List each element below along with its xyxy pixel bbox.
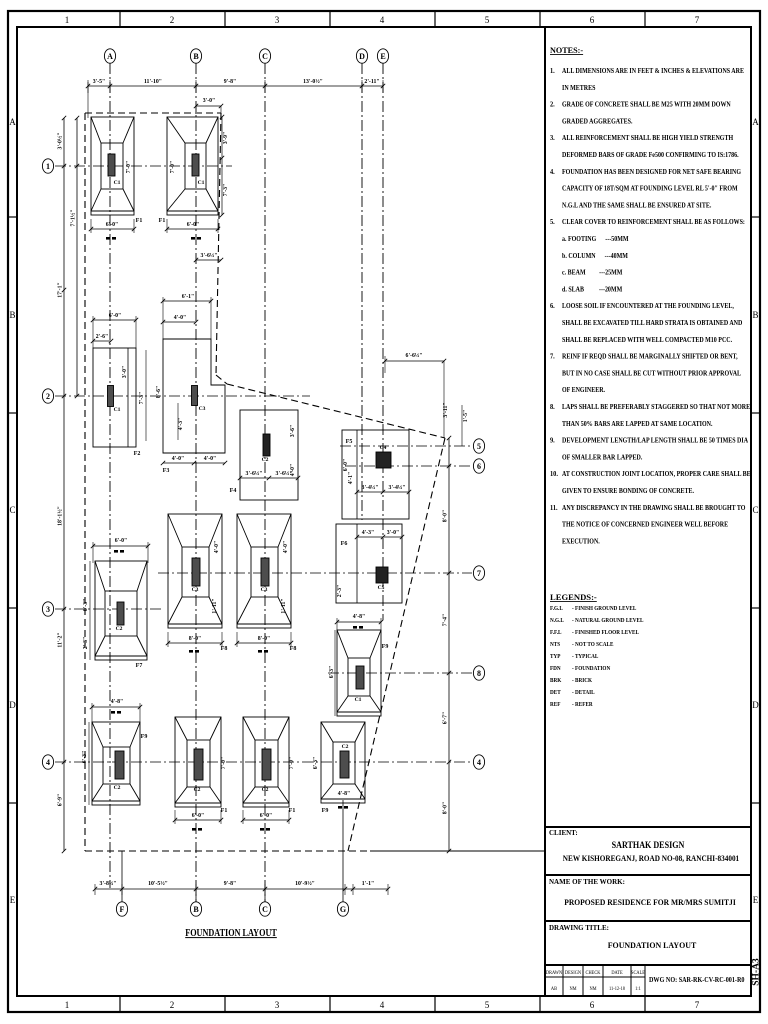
svg-text:13'-0½": 13'-0½"	[303, 78, 323, 85]
left dimension chain outer	[62, 116, 66, 853]
svg-text:OF ENGINEER.: OF ENGINEER.	[562, 387, 605, 395]
svg-text:BRK: BRK	[550, 678, 562, 684]
svg-text:ALL DIMENSIONS ARE IN FEET & I: ALL DIMENSIONS ARE IN FEET & INCHES & EL…	[562, 67, 744, 75]
svg-text:8'-0": 8'-0"	[443, 802, 449, 815]
svg-text:3'-0": 3'-0"	[387, 530, 400, 536]
svg-text:DET: DET	[550, 690, 561, 696]
svg-text:F: F	[120, 905, 125, 914]
svg-text:7: 7	[695, 1000, 700, 1010]
svg-text:SHALL BE REPLACED WITH WELL CO: SHALL BE REPLACED WITH WELL COMPACTED M1…	[562, 336, 732, 344]
svg-text:1: 1	[65, 15, 70, 25]
svg-text:b. COLUMN ---40MM: b. COLUMN ---40MM	[562, 252, 628, 260]
svg-text:6: 6	[590, 15, 595, 25]
footing F1 at C/4	[243, 717, 295, 814]
svg-text:4: 4	[380, 1000, 385, 1010]
grid line A	[109, 63, 111, 888]
dimension 3ft11 vertical	[443, 402, 469, 446]
svg-text:3'-5": 3'-5"	[93, 79, 106, 85]
svg-text:F.G.L: F.G.L	[550, 606, 563, 612]
svg-text:2'-6": 2'-6"	[96, 334, 109, 340]
svg-text:C2: C2	[114, 785, 121, 791]
grid bubble C	[259, 49, 270, 63]
footing F1-B1 dims	[165, 161, 220, 240]
svg-text:D: D	[359, 52, 365, 61]
svg-text:LAPS SHALL BE PREFERABLY STAGG: LAPS SHALL BE PREFERABLY STAGGERED SO TH…	[562, 403, 751, 411]
building outline right edge upper	[216, 113, 221, 375]
svg-text:E: E	[380, 52, 385, 61]
svg-text:2'-11": 2'-11"	[364, 79, 379, 85]
drawing title divider	[545, 920, 751, 922]
dimension 3ft9 right of footing B1	[220, 115, 229, 217]
bottom margin strip ticks	[120, 996, 645, 1012]
svg-text:F2: F2	[134, 451, 141, 457]
dimension 6ft6 top right	[383, 352, 446, 438]
grid bubble 2	[42, 389, 53, 403]
svg-text:6'-3": 6'-3"	[313, 757, 319, 770]
svg-text:7'-0": 7'-0"	[289, 757, 295, 770]
svg-text:DRAWING TITLE:: DRAWING TITLE:	[549, 924, 609, 932]
grid line B	[195, 63, 197, 902]
svg-text:3'-0": 3'-0"	[122, 366, 128, 379]
svg-text:A: A	[9, 117, 16, 127]
svg-text:1'-1": 1'-1"	[362, 881, 375, 887]
svg-text:3: 3	[46, 605, 50, 614]
svg-text:4'-8": 4'-8"	[338, 791, 351, 797]
svg-text:F9: F9	[141, 734, 148, 740]
svg-text:6'-0": 6'-0"	[192, 813, 205, 819]
svg-text:9'-8": 9'-8"	[224, 881, 237, 887]
svg-text:ALL REINFORCEMENT SHALL BE HIG: ALL REINFORCEMENT SHALL BE HIGH YIELD ST…	[562, 135, 734, 143]
bottom grid stem F	[121, 851, 123, 902]
svg-text:4'-0": 4'-0"	[174, 315, 187, 321]
svg-text:4'-0": 4'-0"	[283, 541, 289, 554]
grid bubble G	[337, 902, 348, 916]
svg-text:F1: F1	[159, 218, 166, 224]
svg-text:2: 2	[170, 1000, 175, 1010]
grid bubble B bottom	[190, 902, 201, 916]
footing F1 at B/1	[159, 117, 218, 224]
grid line 2	[55, 395, 310, 397]
left chain labels	[57, 133, 64, 807]
svg-text:3'-11": 3'-11"	[443, 402, 449, 417]
svg-text:3'-6½": 3'-6½"	[201, 252, 218, 259]
svg-text:CLEAR COVER TO REINFORCEMENT S: CLEAR COVER TO REINFORCEMENT SHALL BE AS…	[562, 219, 745, 227]
svg-text:F4: F4	[230, 488, 237, 494]
svg-text:5: 5	[485, 1000, 490, 1010]
svg-text:1:1: 1:1	[635, 987, 641, 992]
grid bubble B	[190, 49, 201, 63]
building outline left edge	[84, 113, 86, 851]
svg-text:IN METRES: IN METRES	[562, 84, 596, 92]
footing F9 at G/4	[321, 722, 365, 814]
svg-text:NEW KISHOREGANJ, ROAD NO-08, R: NEW KISHOREGANJ, ROAD NO-08, RANCHI-8340…	[563, 853, 739, 863]
svg-text:NTS: NTS	[550, 642, 560, 648]
footing F9 at E/8	[337, 630, 388, 716]
svg-text:4'-0": 4'-0"	[214, 541, 220, 554]
footing F5 dims	[343, 459, 411, 494]
bottom grid stem G	[342, 800, 344, 902]
footing F1 at B/4	[175, 717, 227, 814]
svg-text:NOTES:-: NOTES:-	[550, 46, 583, 55]
svg-text:DATE: DATE	[611, 971, 622, 976]
right margin letters A-E	[752, 117, 759, 905]
footing F2	[93, 348, 140, 457]
svg-text:GRADE OF CONCRETE SHALL BE M2: GRADE OF CONCRETE SHALL BE M25 WITH 20MM…	[562, 101, 731, 109]
svg-text:C4: C4	[380, 445, 387, 451]
name of work divider	[545, 874, 751, 876]
svg-text:B: B	[193, 905, 199, 914]
grid line C	[264, 63, 266, 902]
footing F8 at B/7	[168, 514, 227, 652]
svg-text:6'-3": 6'-3"	[83, 599, 89, 612]
svg-text:2.: 2.	[550, 100, 555, 109]
svg-text:4'-0": 4'-0"	[172, 456, 185, 462]
svg-text:- REFER: - REFER	[572, 702, 594, 708]
title block client row divider	[545, 826, 751, 828]
building outline top edge	[85, 112, 221, 114]
svg-text:3'-6": 3'-6"	[290, 425, 296, 438]
svg-text:PROPOSED RESIDENCE FOR MR/MRS: PROPOSED RESIDENCE FOR MR/MRS SUMITJI	[564, 897, 736, 907]
svg-text:7: 7	[695, 15, 700, 25]
svg-text:A: A	[107, 52, 113, 61]
grid bubble F	[116, 902, 127, 916]
footing F3 dims	[161, 294, 227, 465]
svg-text:F3: F3	[163, 468, 170, 474]
svg-text:C3: C3	[199, 406, 206, 412]
svg-text:6'-1": 6'-1"	[182, 294, 195, 300]
grid bubble A	[104, 49, 115, 63]
grid line 4	[55, 761, 472, 763]
svg-text:C1: C1	[198, 180, 205, 186]
top margin strip ticks	[120, 11, 645, 27]
grid bubble C bottom	[259, 902, 270, 916]
footing F7 dims	[83, 538, 150, 660]
svg-text:3'-0½": 3'-0½"	[57, 133, 64, 150]
svg-text:c. BEAM ---25MM: c. BEAM ---25MM	[562, 269, 623, 277]
svg-text:F6: F6	[341, 541, 348, 547]
bottom dimension labels	[100, 880, 375, 887]
left margin letters A-E	[9, 117, 16, 905]
footing F3 (L-shaped)	[163, 339, 225, 474]
svg-text:6'-0": 6'-0"	[260, 813, 273, 819]
svg-text:11-12-18: 11-12-18	[609, 987, 625, 992]
svg-text:4: 4	[477, 758, 481, 767]
svg-text:6: 6	[590, 1000, 595, 1010]
svg-text:C2: C2	[194, 787, 201, 793]
grid line 1	[55, 165, 232, 167]
svg-text:F.F.L: F.F.L	[550, 630, 562, 636]
svg-text:FOUNDATION LAYOUT: FOUNDATION LAYOUT	[608, 941, 697, 950]
title block table grid	[545, 965, 645, 996]
svg-text:REF: REF	[550, 702, 561, 708]
svg-text:9'-8": 9'-8"	[224, 79, 237, 85]
svg-text:ANY DISCREPANCY IN THE DRAWING: ANY DISCREPANCY IN THE DRAWING SHALL BE …	[562, 504, 745, 512]
dimension 3ft0 above footing B1	[194, 98, 223, 117]
svg-text:6.: 6.	[550, 302, 555, 311]
svg-text:7'-0": 7'-0"	[126, 161, 132, 174]
svg-text:LEGENDS:-: LEGENDS:-	[550, 592, 597, 602]
svg-text:6'-7": 6'-7"	[443, 712, 449, 725]
svg-text:C: C	[262, 52, 268, 61]
svg-text:7: 7	[477, 569, 481, 578]
footing F6 dims	[337, 530, 404, 597]
grid bubble 4 left	[42, 755, 53, 769]
footing F8-B dims	[166, 541, 224, 653]
svg-text:E: E	[753, 895, 759, 905]
svg-text:D: D	[752, 700, 759, 710]
bottom dimension line	[93, 884, 390, 895]
footing F1-A1 dims	[89, 161, 136, 240]
svg-text:10'-9½": 10'-9½"	[295, 880, 315, 887]
footing F8-C dims	[235, 541, 293, 653]
svg-text:7.: 7.	[550, 352, 555, 361]
svg-text:7'-0": 7'-0"	[170, 161, 176, 174]
svg-text:BUT IN NO CASE SHALL BE CUT WI: BUT IN NO CASE SHALL BE CUT WITHOUT PRIO…	[562, 370, 741, 378]
footing F5 at D/5	[342, 430, 409, 519]
svg-text:6: 6	[477, 462, 481, 471]
svg-text:SARTHAK DESIGN: SARTHAK DESIGN	[612, 840, 686, 851]
svg-text:4'-3": 4'-3"	[362, 530, 375, 536]
grid line D	[361, 63, 363, 520]
svg-text:CLIENT:: CLIENT:	[549, 829, 578, 837]
title block table top	[545, 964, 751, 966]
svg-text:AB: AB	[551, 987, 558, 992]
svg-text:NM: NM	[589, 987, 597, 992]
svg-text:3'-4½": 3'-4½"	[389, 484, 406, 491]
svg-text:8'-0": 8'-0"	[443, 510, 449, 523]
grid bubble 7	[473, 566, 484, 580]
svg-text:EXECUTION.: EXECUTION.	[562, 538, 600, 546]
svg-text:- NOT TO SCALE: - NOT TO SCALE	[572, 642, 614, 648]
svg-text:OF SMALLER BAR LAPPED.: OF SMALLER BAR LAPPED.	[562, 454, 643, 462]
svg-text:N.G.L AND THE SAME SHALL BE EN: N.G.L AND THE SAME SHALL BE ENSURED AT S…	[562, 202, 712, 210]
footing F1-B4 dims	[173, 757, 227, 831]
footing F9-E8 dims	[329, 614, 383, 716]
grid bubble E	[377, 49, 388, 63]
building outline sloped edge to grid 5	[227, 384, 445, 438]
grid line 7	[158, 572, 472, 574]
notes panel divider	[544, 27, 546, 996]
svg-text:3'-9": 3'-9"	[223, 132, 229, 145]
svg-text:F1: F1	[289, 808, 296, 814]
grid line 6	[345, 465, 472, 467]
svg-text:1: 1	[65, 1000, 70, 1010]
svg-text:7'-1½": 7'-1½"	[70, 210, 77, 227]
svg-text:- FINISH GROUND LEVEL: - FINISH GROUND LEVEL	[572, 606, 637, 612]
footing F9 at F/4	[92, 722, 147, 805]
notes text block	[550, 67, 751, 546]
svg-text:- DETAIL: - DETAIL	[572, 690, 595, 696]
grid bubble 1	[42, 159, 53, 173]
svg-text:17'-1": 17'-1"	[58, 282, 64, 297]
svg-text:4'-0": 4'-0"	[290, 464, 296, 477]
svg-text:C2: C2	[262, 787, 269, 793]
svg-text:LOOSE SOIL IF ENCOUNTERED AT T: LOOSE SOIL IF ENCOUNTERED AT THE FOUNDIN…	[562, 303, 734, 311]
svg-text:10.: 10.	[550, 470, 558, 479]
svg-text:F9: F9	[382, 644, 389, 650]
svg-text:a. FOOTING ---50MM: a. FOOTING ---50MM	[562, 235, 629, 243]
svg-text:FDN: FDN	[550, 666, 561, 672]
svg-text:5.: 5.	[550, 218, 555, 227]
bottom grid stem B	[195, 889, 197, 902]
dimension 3ft6 below footing B1	[194, 252, 223, 262]
svg-text:C: C	[262, 905, 268, 914]
footing F9-F4 dims	[82, 699, 142, 805]
svg-text:F5: F5	[346, 439, 353, 445]
svg-text:FOUNDATION LAYOUT: FOUNDATION LAYOUT	[185, 927, 277, 938]
bottom margin numbers 1-7	[65, 1000, 700, 1010]
svg-text:C2: C2	[262, 457, 269, 463]
left margin strip ticks	[8, 217, 17, 803]
svg-text:C1: C1	[114, 180, 121, 186]
svg-text:SCALE: SCALE	[631, 971, 645, 976]
svg-text:4'-3": 4'-3"	[178, 418, 184, 431]
svg-text:11.: 11.	[550, 503, 558, 512]
grid bubble 8	[473, 666, 484, 680]
footing F1 at A/1	[91, 117, 142, 224]
svg-text:CAPACITY OF 18T/SQM AT FOUNDIN: CAPACITY OF 18T/SQM AT FOUNDING LEVEL RL…	[562, 185, 738, 193]
svg-text:D: D	[9, 700, 16, 710]
svg-text:1: 1	[46, 162, 50, 171]
svg-text:B: B	[193, 52, 199, 61]
svg-text:1'-5": 1'-5"	[463, 410, 469, 423]
grid line 5	[340, 445, 472, 447]
svg-text:- FOUNDATION: - FOUNDATION	[572, 666, 610, 672]
svg-text:4'-1": 4'-1"	[348, 472, 354, 485]
svg-text:7'-4": 7'-4"	[443, 614, 449, 627]
svg-text:C2: C2	[116, 626, 123, 632]
footing F2 dims	[91, 313, 162, 441]
svg-text:5: 5	[477, 442, 481, 451]
svg-text:6'-0": 6'-0"	[187, 222, 200, 228]
svg-text:6'-3": 6'-3"	[329, 666, 335, 679]
svg-text:- TYPICAL: - TYPICAL	[572, 654, 599, 660]
svg-text:1.: 1.	[550, 67, 555, 76]
svg-text:3'-6½": 3'-6½"	[246, 470, 263, 477]
svg-text:DWG NO: SAR-RK-CV-RC-001-R0: DWG NO: SAR-RK-CV-RC-001-R0	[649, 977, 745, 984]
svg-text:C3: C3	[192, 587, 199, 593]
svg-text:F9: F9	[322, 808, 329, 814]
svg-text:C5: C5	[378, 585, 385, 591]
svg-text:4'-8": 4'-8"	[111, 699, 124, 705]
svg-text:TYP: TYP	[550, 654, 561, 660]
svg-text:- FINISHED FLOOR LEVEL: - FINISHED FLOOR LEVEL	[572, 630, 639, 636]
svg-text:6'-0": 6'-0"	[106, 222, 119, 228]
svg-text:6'-3": 6'-3"	[82, 751, 88, 764]
svg-text:F1: F1	[221, 808, 228, 814]
svg-text:6'-6½": 6'-6½"	[406, 352, 423, 359]
svg-text:2: 2	[170, 15, 175, 25]
svg-text:8'-0": 8'-0"	[189, 636, 202, 642]
svg-text:- NATURAL GROUND LEVEL: - NATURAL GROUND LEVEL	[572, 618, 644, 624]
footing F7 at A/3	[95, 561, 147, 669]
svg-text:F8: F8	[290, 646, 297, 652]
svg-text:3'-4½": 3'-4½"	[362, 484, 379, 491]
svg-text:SH-A3: SH-A3	[752, 958, 762, 986]
svg-text:F8: F8	[221, 646, 228, 652]
svg-text:8.: 8.	[550, 403, 555, 412]
svg-text:4'-8": 4'-8"	[353, 614, 366, 620]
grid bubble D	[356, 49, 367, 63]
svg-text:- BRICK: - BRICK	[572, 678, 593, 684]
table headers	[546, 971, 645, 992]
svg-text:11'-10": 11'-10"	[144, 79, 162, 85]
svg-text:6'-0": 6'-0"	[343, 459, 349, 472]
grid bubble 4 right	[473, 755, 484, 769]
right dimension labels	[443, 510, 449, 815]
svg-text:C: C	[9, 505, 15, 515]
top dimension labels	[93, 78, 380, 85]
building outline jog	[216, 375, 227, 384]
svg-text:N.G.L: N.G.L	[550, 618, 564, 624]
top dimension line	[86, 80, 385, 118]
svg-text:3'-0": 3'-0"	[203, 98, 216, 104]
svg-text:7'-3": 7'-3"	[139, 392, 145, 405]
svg-text:GRADED AGGREGATES.: GRADED AGGREGATES.	[562, 118, 633, 126]
svg-text:9.: 9.	[550, 436, 555, 445]
bottom grid stem C	[264, 889, 266, 902]
svg-text:4.: 4.	[550, 167, 555, 176]
svg-text:4'-0": 4'-0"	[204, 456, 217, 462]
svg-text:3: 3	[275, 15, 280, 25]
svg-text:6'-9": 6'-9"	[58, 794, 64, 807]
svg-text:SHALL BE EXCAVATED TILL HARD S: SHALL BE EXCAVATED TILL HARD STRATA IS O…	[562, 319, 742, 327]
footing F8 at C/7	[237, 514, 296, 652]
grid line E	[382, 63, 384, 620]
svg-text:C1: C1	[114, 407, 121, 413]
svg-text:2: 2	[46, 392, 50, 401]
footing F9-G4 dims	[313, 757, 350, 809]
svg-text:4: 4	[46, 758, 50, 767]
svg-text:GIVEN TO ENSURE BONDING OF CON: GIVEN TO ENSURE BONDING OF CONCRETE.	[562, 487, 694, 495]
svg-text:3'-8½": 3'-8½"	[100, 880, 117, 887]
svg-text:2'-3": 2'-3"	[337, 585, 343, 598]
footing F1-C4 dims	[241, 757, 295, 831]
svg-text:7'-0": 7'-0"	[221, 757, 227, 770]
left dimension chain inner	[75, 116, 79, 398]
grid line 3	[55, 608, 162, 610]
right dimension line	[447, 436, 451, 853]
svg-text:F1: F1	[136, 218, 143, 224]
svg-text:C2: C2	[342, 744, 349, 750]
svg-text:A: A	[752, 117, 759, 127]
svg-text:C1: C1	[355, 697, 362, 703]
svg-text:G: G	[340, 905, 346, 914]
building outline bottom edge	[85, 850, 370, 852]
svg-text:AT CONSTRUCTION JOINT LOCATION: AT CONSTRUCTION JOINT LOCATION, PROPER C…	[562, 471, 751, 479]
plan lower boundary line	[449, 850, 544, 852]
svg-text:8: 8	[477, 669, 481, 678]
svg-text:d. SLAB ---20MM: d. SLAB ---20MM	[562, 286, 623, 294]
svg-text:11'-2": 11'-2"	[58, 632, 64, 647]
svg-text:REINF IF REQD SHALL BE MARGINA: REINF IF REQD SHALL BE MARGINALLY SHIFTE…	[562, 353, 738, 361]
svg-text:8'-0": 8'-0"	[258, 636, 271, 642]
grid bubble 6	[473, 459, 484, 473]
grid line 8	[328, 672, 472, 674]
svg-text:10'-5½": 10'-5½"	[148, 880, 168, 887]
grid bubble 5	[473, 439, 484, 453]
footing F4 at C/2	[230, 410, 298, 500]
svg-text:3.: 3.	[550, 134, 555, 143]
svg-text:1'-11": 1'-11"	[212, 598, 218, 613]
svg-text:F7: F7	[136, 663, 143, 669]
svg-text:4: 4	[380, 15, 385, 25]
building outline bottom solid segment	[370, 850, 449, 852]
top margin numbers 1-7	[65, 15, 700, 25]
svg-text:FOUNDATION HAS BEEN DESIGNED F: FOUNDATION HAS BEEN DESIGNED FOR NET SAF…	[562, 168, 742, 176]
svg-text:B: B	[752, 310, 758, 320]
svg-text:B: B	[9, 310, 15, 320]
